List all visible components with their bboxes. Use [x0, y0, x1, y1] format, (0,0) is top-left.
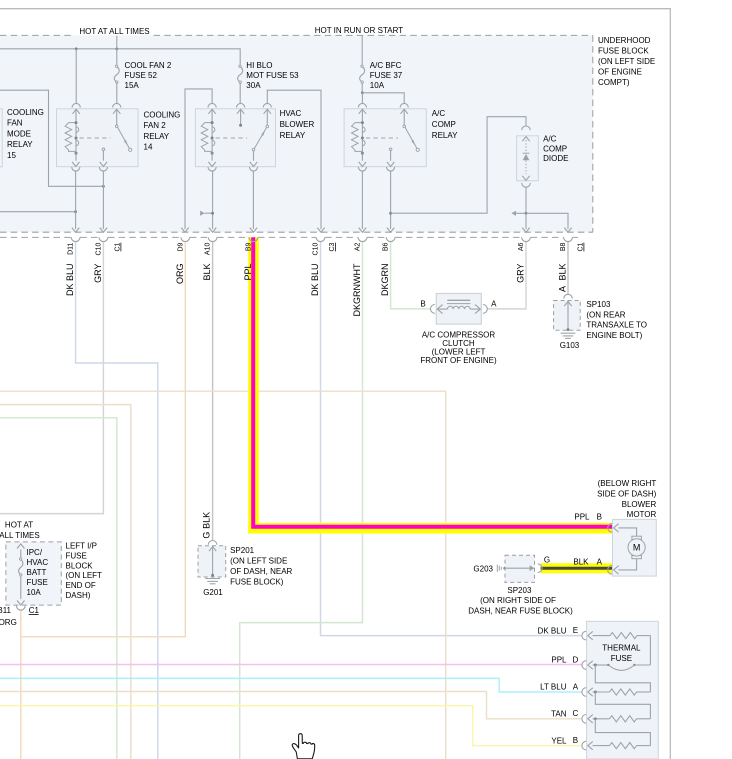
- branch arrow (to other circuit): [515, 212, 526, 214]
- svg-text:MODE: MODE: [7, 129, 31, 138]
- svg-text:BLK: BLK: [202, 512, 212, 529]
- svg-text:BLK: BLK: [558, 264, 568, 281]
- svg-text:ORG: ORG: [175, 264, 185, 285]
- svg-text:THERMAL: THERMAL: [602, 644, 641, 653]
- wire K4 switch output to B6 exit: [390, 171, 392, 229]
- svg-text:D11: D11: [68, 242, 75, 254]
- svg-text:DASH, NEAR FUSE BLOCK): DASH, NEAR FUSE BLOCK): [468, 606, 573, 615]
- svg-text:G: G: [202, 532, 212, 539]
- wire TAN from left edge down right side: [0, 391, 446, 759]
- svg-text:(BELOW RIGHT: (BELOW RIGHT: [598, 479, 657, 488]
- clutch coil: [447, 306, 470, 309]
- svg-text:C: C: [573, 709, 579, 718]
- mouse cursor (hand): [292, 734, 314, 759]
- link C to B: [595, 719, 650, 746]
- fuse IPC/HVAC BATT FUSE 10A: [17, 544, 24, 549]
- wire to A/C comp diode: [391, 117, 526, 214]
- relay K4 coil: [361, 109, 363, 123]
- svg-text:A/C BFC: A/C BFC: [370, 61, 402, 70]
- svg-text:15: 15: [7, 151, 16, 160]
- svg-text:M: M: [633, 543, 641, 553]
- svg-text:B: B: [573, 736, 578, 745]
- svg-text:DKGRN: DKGRN: [380, 264, 390, 297]
- connector exit D11 DK BLU: [71, 237, 80, 241]
- svg-text:HVAC: HVAC: [280, 109, 302, 118]
- wire K3 switch pin over to C10 exit: [267, 90, 321, 229]
- svg-text:A6: A6: [518, 242, 525, 251]
- svg-text:A: A: [491, 299, 497, 308]
- svg-text:G201: G201: [203, 588, 223, 597]
- svg-text:10A: 10A: [27, 588, 42, 597]
- clutch plates: [447, 299, 470, 301]
- wire junction to B8 exit: [526, 213, 568, 229]
- svg-text:B8: B8: [560, 242, 567, 251]
- wire GREEN from left edge: [0, 418, 117, 759]
- svg-text:E: E: [573, 626, 578, 635]
- svg-text:RELAY: RELAY: [144, 132, 170, 141]
- svg-text:COOLING: COOLING: [7, 108, 44, 117]
- svg-text:PPL: PPL: [551, 656, 567, 665]
- svg-text:GRY: GRY: [516, 264, 526, 283]
- svg-text:END OF: END OF: [66, 581, 96, 590]
- svg-text:HOT AT ALL TIMES: HOT AT ALL TIMES: [79, 27, 149, 36]
- svg-text:B: B: [420, 299, 425, 308]
- blower motor resistor block: [587, 621, 659, 759]
- svg-text:HVAC: HVAC: [27, 558, 49, 567]
- svg-text:FUSE: FUSE: [27, 578, 48, 587]
- svg-text:SP103: SP103: [586, 300, 611, 309]
- connector exit A6 GRY: [522, 237, 531, 241]
- relay K3 coil: [211, 109, 213, 123]
- connector exit A10 BLK: [208, 237, 217, 241]
- wire BLK from B8 to SP103: [567, 241, 569, 295]
- connector exit C10 DK BLU: [316, 237, 325, 241]
- svg-text:G203: G203: [473, 565, 493, 574]
- connector exit B8 BLK: [564, 237, 573, 241]
- connector exit B9 PPL: [249, 237, 258, 241]
- svg-text:10A: 10A: [370, 81, 385, 90]
- svg-text:COMP: COMP: [432, 120, 456, 129]
- underhood fuse block (dashed box with fill): [0, 35, 593, 232]
- wire junction to A6 exit: [525, 213, 527, 229]
- svg-text:D: D: [573, 655, 579, 664]
- wire DKGRN from B6 to clutch: [391, 241, 431, 309]
- row C resistor: [593, 718, 610, 720]
- svg-text:LT BLU: LT BLU: [540, 683, 567, 692]
- svg-text:G103: G103: [560, 341, 580, 350]
- svg-text:DK BLU: DK BLU: [538, 626, 567, 635]
- wire DK BLU from C10 (right) to resistor E: [321, 241, 583, 636]
- svg-text:30A: 30A: [246, 81, 261, 90]
- wire PPL B9 highlighted (magenta core): [253, 237, 612, 526]
- svg-text:HI BLO: HI BLO: [246, 61, 272, 70]
- svg-text:A: A: [557, 286, 567, 292]
- node: A/C relay output junction: [389, 212, 392, 215]
- splice SP103: [564, 294, 573, 298]
- svg-text:FUSE: FUSE: [66, 551, 87, 560]
- wire K2 coil output to D11: [75, 171, 77, 229]
- svg-text:FAN 2: FAN 2: [144, 121, 167, 130]
- wire diode bottom to junction: [525, 187, 527, 213]
- wire TAN from left edge (second): [0, 405, 131, 759]
- svg-text:A/C: A/C: [432, 109, 446, 118]
- fuse HI BLO MOT FUSE 53 30A: [239, 65, 241, 67]
- svg-text:D9: D9: [177, 242, 184, 251]
- resistor terminal C: [582, 715, 586, 724]
- connector exit D9 ORG: [181, 237, 190, 241]
- svg-text:FUSE BLOCK: FUSE BLOCK: [598, 47, 649, 56]
- link A to C: [595, 692, 650, 719]
- relay COOLING FAN 2 RELAY 14: [57, 109, 139, 167]
- wire from left edge joining D11 wire: [0, 211, 76, 213]
- thermal fuse: [593, 664, 609, 666]
- svg-text:COOL FAN 2: COOL FAN 2: [125, 61, 172, 70]
- svg-text:FUSE BLOCK): FUSE BLOCK): [230, 577, 284, 586]
- svg-text:B: B: [597, 513, 602, 522]
- svg-text:COMP: COMP: [543, 144, 567, 153]
- svg-text:B11: B11: [0, 606, 12, 615]
- svg-text:OF DASH, NEAR: OF DASH, NEAR: [230, 567, 292, 576]
- wire K3 coil output to A10 exit: [212, 171, 214, 229]
- svg-text:PPL: PPL: [574, 513, 590, 522]
- connector exit B6 DKGRN: [386, 237, 395, 241]
- svg-text:(ON LEFT SIDE: (ON LEFT SIDE: [230, 556, 287, 565]
- wire BLK highlighted from SP203 to blower A (yellow): [541, 563, 613, 573]
- wire DK BLU from D11: [76, 241, 158, 759]
- svg-text:DASH): DASH): [66, 591, 91, 600]
- connector exit C10 GRY: [99, 237, 108, 241]
- svg-text:FRONT OF ENGINE): FRONT OF ENGINE): [420, 356, 497, 365]
- node: fuse 37 output split: [361, 91, 364, 94]
- svg-text:B9: B9: [246, 242, 253, 251]
- splice SP203: [505, 555, 535, 582]
- relay HVAC BLOWER RELAY: [195, 109, 275, 167]
- row E resistor: [593, 635, 610, 637]
- resistor terminal A: [582, 688, 586, 697]
- wire ORG from I/P fuse B11: [20, 610, 22, 759]
- svg-text:TRANSAXLE TO: TRANSAXLE TO: [586, 321, 647, 330]
- fuse block connector row (second dashed line): [0, 236, 71, 238]
- svg-text:DIODE: DIODE: [543, 154, 568, 163]
- svg-text:BLOWER: BLOWER: [280, 120, 315, 129]
- svg-text:FUSE 52: FUSE 52: [125, 71, 158, 80]
- svg-text:BLK: BLK: [202, 264, 212, 281]
- link D to A: [595, 665, 650, 692]
- svg-text:GRY: GRY: [93, 264, 103, 283]
- connector exit A2 DKGRNWHT: [358, 237, 367, 241]
- ground G201: [205, 578, 220, 580]
- wire BLK highlighted core: [541, 567, 613, 570]
- wire PPL B9 highlighted (yellow trace): [254, 237, 613, 528]
- svg-text:(ON LEFT: (ON LEFT: [66, 571, 103, 580]
- node diode junction: [525, 212, 528, 215]
- svg-text:FUSE: FUSE: [611, 654, 632, 663]
- svg-text:FAN: FAN: [7, 119, 23, 128]
- svg-text:SP203: SP203: [507, 586, 532, 595]
- branch arrow into A10 wire: [205, 212, 213, 214]
- svg-text:C10: C10: [96, 242, 103, 255]
- svg-text:G: G: [544, 555, 550, 564]
- svg-text:B6: B6: [383, 242, 390, 251]
- fuse A/C BFC FUSE 37 10A: [361, 65, 363, 67]
- row B resistor: [593, 745, 610, 747]
- wire K2 switch output to C10: [102, 171, 104, 229]
- wire YEL to resistor B: [0, 706, 583, 746]
- svg-text:IPC/: IPC/: [27, 548, 43, 557]
- svg-text:RELAY: RELAY: [432, 131, 458, 140]
- wire ORG from D9: [21, 241, 186, 637]
- svg-text:(ON REAR: (ON REAR: [586, 310, 625, 319]
- resistor terminal D: [582, 661, 586, 670]
- wire K3 switch output to B9 exit: [252, 171, 254, 229]
- svg-text:A10: A10: [205, 243, 212, 256]
- svg-text:RELAY: RELAY: [7, 140, 33, 149]
- wire: HOT AT ALL TIMES bus: [0, 49, 240, 65]
- relay K4 switch: [403, 109, 405, 125]
- svg-text:DKGRNWHT: DKGRNWHT: [352, 263, 362, 316]
- resistor terminal B: [582, 741, 586, 750]
- svg-text:LEFT I/P: LEFT I/P: [66, 542, 97, 551]
- wire K3 coil pin up-over to D9 exit: [185, 89, 212, 229]
- node: bus tap to fuse 52: [115, 47, 118, 50]
- row A resistor: [593, 691, 610, 693]
- svg-text:MOT FUSE 53: MOT FUSE 53: [246, 71, 299, 80]
- wire GRY from C10: [0, 241, 103, 514]
- svg-text:COMPT): COMPT): [598, 78, 630, 87]
- svg-text:C1: C1: [29, 606, 40, 615]
- svg-text:(ON LEFT SIDE: (ON LEFT SIDE: [598, 57, 655, 66]
- wire from cooling fan mode relay to cooling fan 2 relay output: [0, 90, 103, 186]
- relay A/C COMP RELAY: [344, 109, 426, 167]
- relay K3 switch (closed): [266, 109, 268, 125]
- wire K4 coil output to A2 exit: [361, 171, 363, 229]
- wire TAN to resistor C: [0, 692, 583, 719]
- svg-text:BATT: BATT: [27, 568, 47, 577]
- wire: HOT IN RUN feed to fuse 37: [361, 36, 363, 65]
- svg-text:BLK: BLK: [573, 557, 589, 566]
- relay K2 switch: [116, 109, 118, 125]
- fuse COOL FAN 2 FUSE 52 15A: [115, 65, 117, 67]
- svg-text:RELAY: RELAY: [280, 131, 306, 140]
- A/C compressor clutch: [431, 305, 435, 314]
- svg-text:ALL TIMES: ALL TIMES: [0, 531, 40, 540]
- svg-text:SP201: SP201: [230, 546, 255, 555]
- relay COOLING FAN MODE RELAY 15 (box cut at left edge): [0, 109, 2, 167]
- svg-text:A: A: [573, 682, 579, 691]
- svg-text:HOT AT: HOT AT: [5, 520, 33, 529]
- resistor terminal E: [582, 631, 586, 640]
- svg-text:14: 14: [144, 143, 153, 152]
- svg-text:BLOWER: BLOWER: [622, 500, 657, 509]
- svg-text:UNDERHOOD: UNDERHOOD: [598, 36, 651, 45]
- svg-text:PPL: PPL: [243, 264, 253, 281]
- wire GRY from A6 to clutch: [487, 241, 526, 309]
- wire LT BLU to resistor A: [0, 678, 583, 692]
- node junction on C10 wire: [102, 185, 105, 188]
- wire PPL (pink) to resistor D: [0, 664, 583, 666]
- svg-text:YEL: YEL: [551, 736, 567, 745]
- relay K2 coil: [75, 109, 77, 123]
- svg-text:DK BLU: DK BLU: [310, 264, 320, 297]
- svg-text:(ON RIGHT SIDE OF: (ON RIGHT SIDE OF: [480, 596, 556, 605]
- svg-text:ENGINE BOLT): ENGINE BOLT): [586, 331, 642, 340]
- node: bus tap to cooling fan 2 relay coil: [75, 47, 78, 50]
- svg-text:A2: A2: [355, 242, 362, 251]
- svg-text:HOT IN RUN OR START: HOT IN RUN OR START: [315, 26, 404, 35]
- wire DKGRNWHT from A2: [240, 241, 363, 759]
- svg-text:C10: C10: [313, 242, 320, 255]
- svg-text:A: A: [597, 557, 603, 566]
- svg-text:ORG: ORG: [0, 618, 17, 627]
- svg-text:TAN: TAN: [551, 710, 567, 719]
- svg-text:A/C: A/C: [543, 135, 557, 144]
- svg-text:MOTOR: MOTOR: [627, 510, 657, 519]
- svg-text:BLOCK: BLOCK: [66, 561, 94, 570]
- svg-text:COOLING: COOLING: [144, 110, 181, 119]
- svg-text:OF ENGINE: OF ENGINE: [598, 68, 642, 77]
- svg-text:FUSE 37: FUSE 37: [370, 71, 403, 80]
- wire BLK from A10 to SP201: [212, 241, 214, 541]
- diode A/C COMP DIODE: [522, 126, 531, 130]
- svg-text:15A: 15A: [125, 81, 140, 90]
- svg-text:DK BLU: DK BLU: [65, 264, 75, 297]
- svg-text:SIDE OF DASH): SIDE OF DASH): [597, 489, 656, 498]
- relay K3 middle pin (from fuse 53): [240, 109, 242, 124]
- ground G103: [561, 332, 576, 334]
